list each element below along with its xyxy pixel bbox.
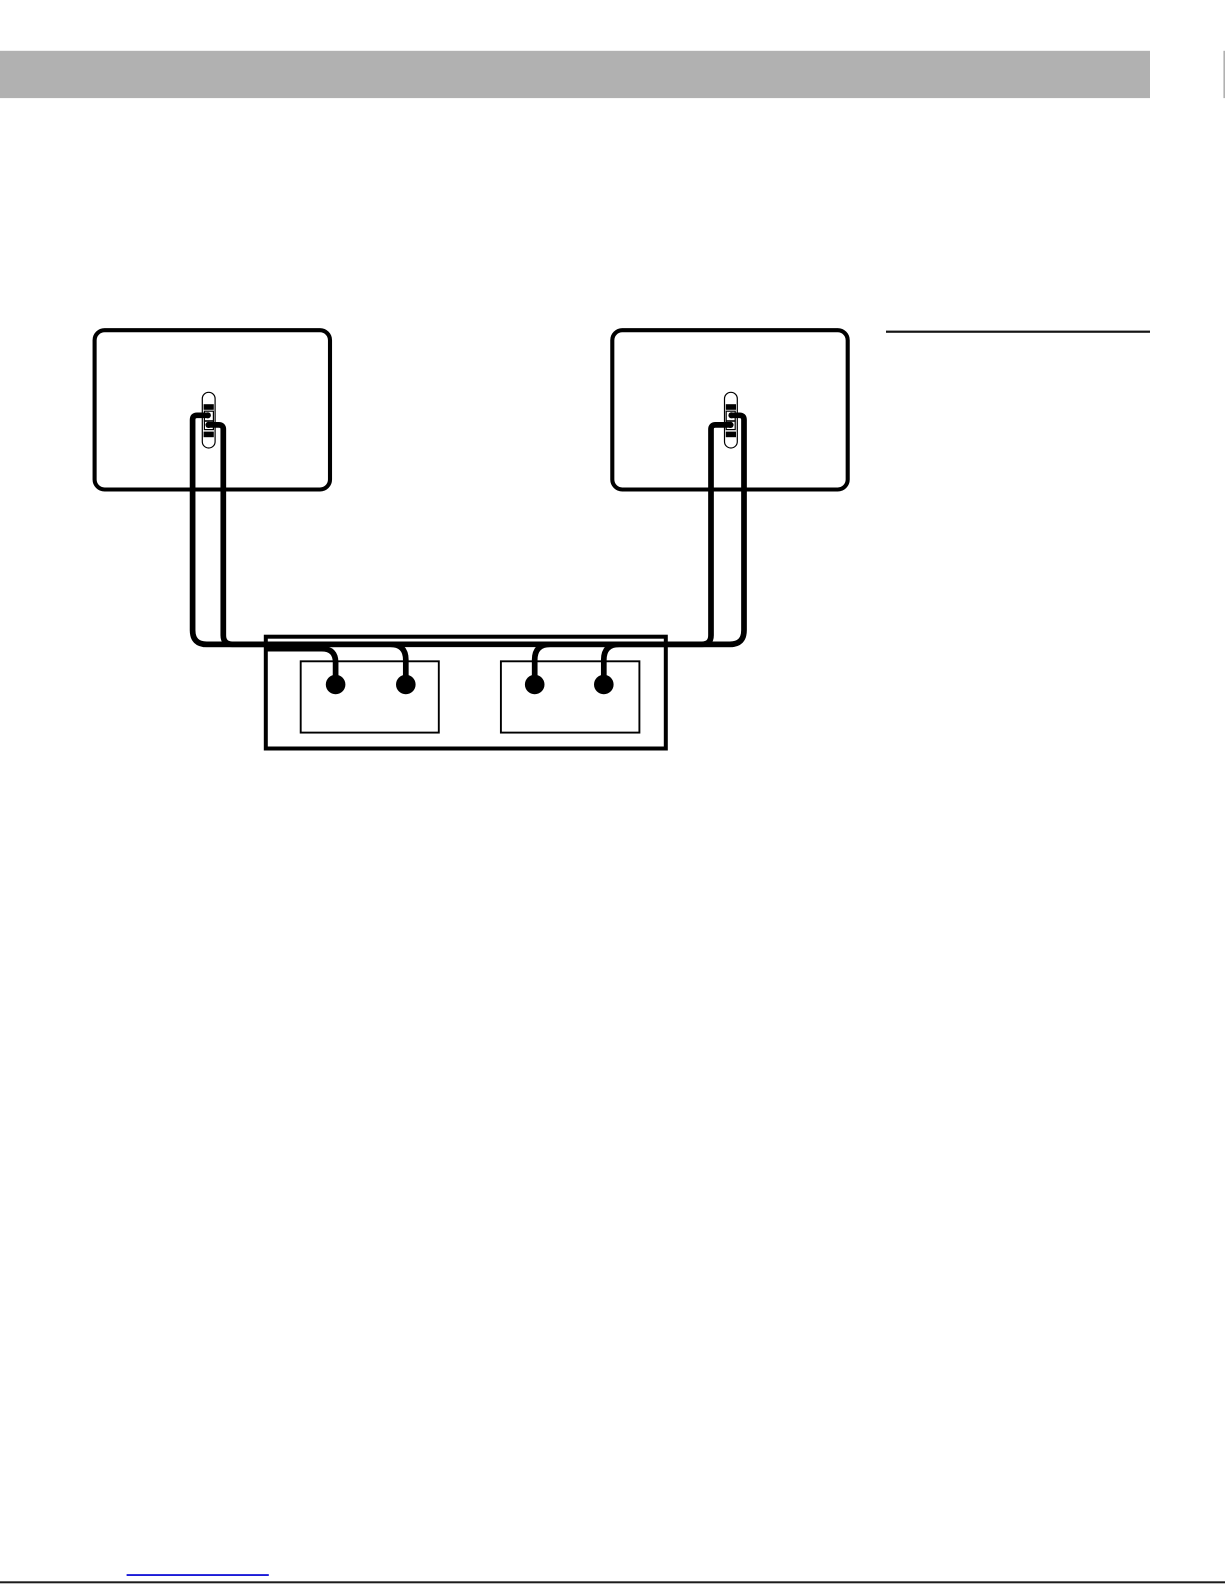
terminal dot 1 xyxy=(326,675,346,695)
left speaker wire A (upper terminal -> outer run -> right amp terminal) xyxy=(193,415,406,682)
terminal dot 3 xyxy=(525,675,545,695)
right speaker terminal capsule xyxy=(725,392,738,448)
wire A blob in upper slot xyxy=(205,412,211,418)
header bar fragment at right page edge xyxy=(1223,51,1225,98)
terminal dot 2 xyxy=(396,675,416,695)
left speaker jack plate (inner box) xyxy=(301,661,439,732)
right speaker wire D (lower terminal -> inner run -> right terminal of right amp jack) xyxy=(604,425,730,682)
terminal dot 4 xyxy=(594,675,614,695)
amplifier outer box xyxy=(266,637,666,749)
left speaker wire B (lower terminal -> inner run -> left amp terminal) xyxy=(208,425,300,644)
wire D blob in lower slot xyxy=(727,422,733,428)
wire B blob in lower slot xyxy=(205,422,211,428)
right speaker box xyxy=(612,330,847,489)
footer link underline (blue) xyxy=(127,1574,269,1576)
left speaker box xyxy=(95,330,330,489)
footer bottom rule xyxy=(0,1581,1225,1583)
right speaker wire C (upper terminal -> outer run -> left terminal of right amp jack) xyxy=(535,415,744,682)
wire C blob in upper slot xyxy=(728,412,734,418)
right speaker jack plate (inner box) xyxy=(501,661,640,732)
lower wire stub from amp left wall to terminal dot 1 xyxy=(266,649,336,682)
left speaker terminal capsule xyxy=(202,392,215,448)
header gray bar xyxy=(0,51,1150,98)
wire bus (cable run along amp top, continuous) xyxy=(203,641,733,647)
section heading rule (top right) xyxy=(886,331,1150,333)
